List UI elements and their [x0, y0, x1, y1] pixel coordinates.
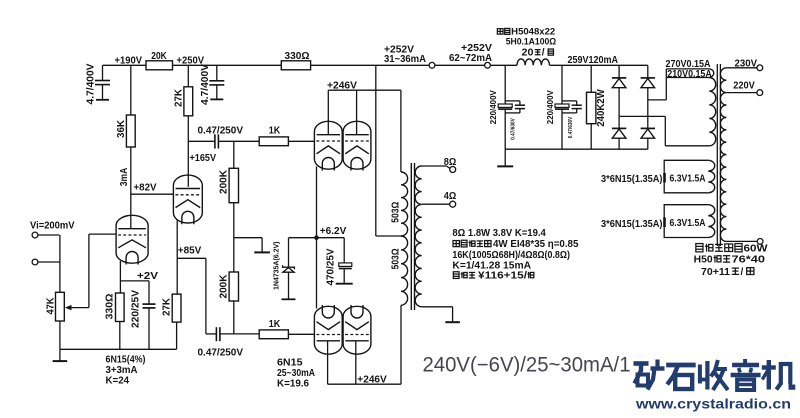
svg-text:6.3V1.5A: 6.3V1.5A: [670, 218, 706, 229]
heater winding 6.3V #1: [601, 160, 715, 193]
transformer T1 primary: [391, 172, 408, 305]
svg-text:0.47/630V: 0.47/630V: [511, 118, 517, 140]
label 270V0.15A: [666, 59, 711, 70]
svg-text:1N4735A(6.2V): 1N4735A(6.2V): [272, 241, 281, 290]
label 210V0.15A: [666, 69, 712, 80]
heater winding 6.3V #2: [601, 205, 715, 238]
capacitor C1 4.7/400V: [86, 63, 110, 104]
capacitor C4 470/25V: [317, 238, 353, 286]
svg-text:8Ω 1.8W 3.8V K=19.4: 8Ω 1.8W 3.8V K=19.4: [452, 228, 546, 239]
svg-text:200K: 200K: [219, 274, 230, 299]
svg-text:47K: 47K: [46, 297, 57, 315]
wire +252V to OPT center tap: [376, 65, 401, 236]
label operating point bottom: [423, 354, 631, 377]
tube V1b 6N15 second triode: [173, 175, 202, 224]
svg-text:/: /: [542, 48, 545, 59]
svg-text:60W: 60W: [744, 244, 769, 255]
terminal input bottom: [32, 259, 59, 265]
wire bridge AC node lower: [619, 116, 709, 145]
svg-text:210V0.15A: 210V0.15A: [667, 69, 712, 80]
node +2V: [120, 271, 158, 282]
transformer T2 core: [717, 64, 720, 246]
svg-text:1K: 1K: [269, 125, 281, 136]
watermark kuang shi shou yin ji: [634, 359, 794, 390]
wire psu bottom rail: [505, 148, 648, 150]
resistor R8 330R cathode: [105, 293, 125, 349]
capacitor C7 220/400V first filter: [489, 65, 525, 166]
svg-text:6N15(4%): 6N15(4%): [106, 355, 146, 366]
terminal 4 ohm: [422, 191, 457, 207]
tube V3 output lower pair: [314, 305, 371, 354]
resistor R10 1K lower grid stopper: [259, 319, 314, 338]
svg-text:+85V: +85V: [178, 245, 202, 256]
wire V1b cathode +85V: [177, 220, 206, 294]
svg-text:259V120mA: 259V120mA: [568, 55, 619, 66]
ground speaker return: [422, 307, 460, 322]
resistor R9 27K cathode: [162, 294, 181, 349]
label 6N15 output stage: [277, 357, 315, 389]
svg-text:6.3V1.5A: 6.3V1.5A: [670, 173, 706, 184]
terminal 230V: [726, 58, 762, 70]
capacitor C5 220/25V: [131, 281, 156, 349]
tube V1a 6N15 input triode: [116, 215, 148, 264]
svg-text:K=24: K=24: [106, 375, 130, 386]
label +252V 62-72mA: [449, 43, 493, 64]
svg-text:3*6N15(1.35A): 3*6N15(1.35A): [601, 219, 663, 230]
inductor L1 choke: [517, 59, 648, 65]
svg-text:240K2W: 240K2W: [596, 89, 607, 127]
transformer T2 HV secondary: [709, 69, 715, 146]
svg-text:+6.2V: +6.2V: [320, 226, 347, 237]
svg-text:31~36mA: 31~36mA: [384, 54, 427, 65]
label output transformer specs: [452, 228, 578, 281]
wire V1a cathode: [119, 261, 121, 293]
svg-text:330Ω: 330Ω: [105, 294, 116, 320]
terminal input top: [32, 232, 59, 238]
svg-text:K=19.6: K=19.6: [277, 379, 309, 390]
node +82V: [131, 183, 174, 195]
ground mid bias: [234, 238, 270, 253]
diode D5 zener 1N4735A: [272, 238, 296, 300]
transformer T1 core: [411, 163, 414, 310]
transformer T1 secondary: [415, 166, 422, 307]
resistor R11 240K2W bleeder: [587, 65, 607, 149]
wire output cathode line: [316, 167, 318, 309]
resistor R6 200K upper: [219, 141, 239, 237]
terminal mains common: [726, 239, 763, 245]
svg-text:36K: 36K: [116, 119, 127, 138]
svg-text:6N15: 6N15: [277, 357, 303, 368]
ground rail bottom left: [53, 349, 177, 361]
svg-text:220/400V: 220/400V: [489, 90, 498, 125]
node +6.2V: [289, 226, 347, 240]
svg-text:20: 20: [522, 48, 534, 59]
svg-text:0.47/630V: 0.47/630V: [568, 117, 574, 139]
resistor R3 27K: [174, 65, 193, 116]
svg-text:5H0.1A100Ω: 5H0.1A100Ω: [506, 35, 557, 46]
diode D1 bridge: [612, 65, 626, 116]
label choke brand: [497, 26, 556, 59]
label +252V 31-36mA: [384, 45, 427, 66]
node +246V lower: [328, 305, 401, 385]
capacitor C2 4.7/400V: [200, 64, 225, 105]
svg-text:200K: 200K: [219, 169, 230, 194]
svg-text:4.7/400V: 4.7/400V: [86, 63, 97, 104]
svg-text:25~30mA: 25~30mA: [277, 368, 315, 379]
svg-text:503Ω: 503Ω: [391, 248, 402, 269]
svg-text:220/400V: 220/400V: [546, 90, 555, 125]
svg-text:www.crystalradio.cn: www.crystalradio.cn: [635, 396, 791, 412]
diode D3 bridge: [612, 116, 626, 149]
resistor R5 1K upper grid stopper: [259, 125, 314, 145]
diode D2 bridge: [641, 65, 655, 100]
tube V2 output upper pair: [314, 121, 371, 170]
svg-text:Vi=200mV: Vi=200mV: [30, 220, 75, 231]
resistor R7 200K lower: [219, 238, 239, 334]
resistor R4 330R: [281, 51, 310, 70]
svg-text:70+11: 70+11: [701, 267, 730, 278]
capacitor C3 0.47/250V coupling upper: [188, 125, 259, 148]
svg-text:+190V: +190V: [115, 56, 143, 67]
svg-text:/: /: [741, 267, 744, 278]
wire bridge AC node upper: [648, 69, 667, 100]
watermark url: [635, 396, 791, 412]
svg-text:H50: H50: [694, 255, 713, 266]
resistor R1 20K: [146, 51, 173, 70]
svg-text:0.47/250V: 0.47/250V: [198, 347, 244, 358]
label mains transformer: [694, 244, 769, 278]
node +250V: [177, 56, 205, 67]
terminal 220V: [726, 80, 762, 95]
resistor R2 36K: [116, 65, 135, 147]
terminal 8 ohm: [422, 157, 457, 173]
wire B+ rail left: [103, 64, 430, 66]
svg-text:27K: 27K: [162, 297, 173, 316]
svg-text:1K: 1K: [269, 319, 281, 330]
wire V1a grid: [89, 234, 116, 308]
svg-text:0.47/250V: 0.47/250V: [198, 125, 244, 136]
svg-text:+82V: +82V: [134, 183, 157, 194]
wire V1a plate / 3mA: [119, 147, 131, 228]
svg-text:4Ω: 4Ω: [444, 191, 457, 202]
capacitor C6 0.47/250V coupling lower: [198, 258, 260, 358]
svg-text:27K: 27K: [174, 88, 185, 107]
node +190V: [115, 56, 143, 67]
svg-text:220V: 220V: [733, 80, 755, 91]
label 6N15 input stage: [106, 355, 146, 387]
svg-text:3mA: 3mA: [119, 168, 130, 187]
svg-text:3*6N15(1.35A): 3*6N15(1.35A): [601, 174, 663, 185]
transformer T2 mains primary: [720, 68, 726, 242]
svg-text:220/25V: 220/25V: [131, 290, 142, 328]
svg-text:76*40: 76*40: [732, 255, 766, 266]
wire V1b plate +165V: [188, 116, 216, 187]
svg-text:+165V: +165V: [190, 153, 217, 164]
terminal B+ amp side: [429, 62, 485, 68]
svg-text:4W EI48*35 η=0.85: 4W EI48*35 η=0.85: [493, 239, 579, 250]
svg-text:+246V: +246V: [357, 375, 387, 386]
svg-text:4.7/400V: 4.7/400V: [200, 64, 211, 105]
wire input to pot: [59, 235, 61, 292]
svg-text:240V(−6V)/25~30mA/1: 240V(−6V)/25~30mA/1: [423, 354, 631, 377]
terminal B+ psu side: [485, 62, 517, 68]
svg-text:¥116+15/: ¥116+15/: [478, 270, 527, 281]
potentiometer VR1 47K: [46, 292, 89, 349]
diode D4 bridge: [641, 100, 655, 149]
node Vi input label: [30, 220, 75, 231]
label 259V120mA: [568, 55, 619, 66]
node +246V upper: [327, 80, 401, 172]
svg-text:503Ω: 503Ω: [391, 202, 402, 223]
capacitor C8 220/400V second filter: [546, 65, 582, 149]
svg-text:470/25V: 470/25V: [326, 248, 337, 285]
